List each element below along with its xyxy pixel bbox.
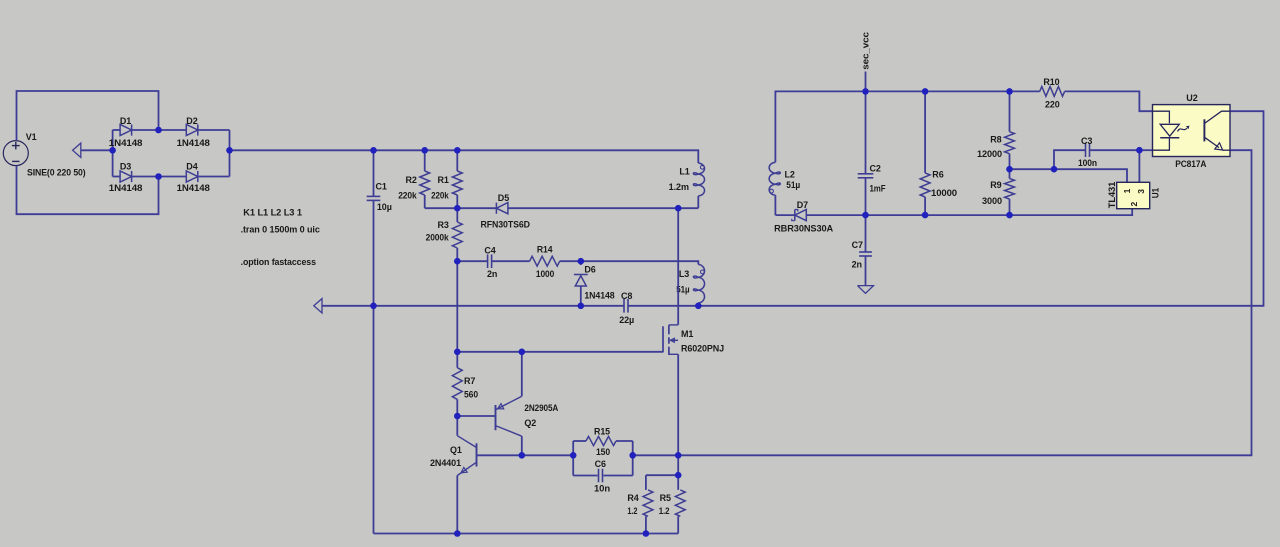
- resistor R9: [1009, 169, 1011, 178]
- svg-text:1000: 1000: [536, 269, 554, 279]
- capacitor C1: [373, 150, 375, 196]
- svg-text:51µ: 51µ: [786, 180, 800, 190]
- svg-text:2: 2: [1129, 202, 1139, 207]
- capacitor C8: [623, 299, 625, 313]
- wire: [457, 351, 663, 353]
- svg-text:1.2: 1.2: [627, 506, 637, 516]
- svg-text:1N4148: 1N4148: [584, 290, 614, 300]
- wire: [1138, 150, 1140, 182]
- wire: [17, 166, 159, 215]
- wire: [322, 305, 624, 307]
- capacitor C2: [865, 91, 867, 173]
- svg-text:RFN30TS6D: RFN30TS6D: [481, 220, 531, 230]
- svg-text:.option fastaccess: .option fastaccess: [241, 257, 316, 267]
- wire: [229, 130, 231, 177]
- U2 coupling arrow: [1178, 128, 1188, 131]
- svg-text:R7: R7: [464, 376, 475, 386]
- svg-text:1: 1: [1122, 188, 1132, 193]
- transistor Q2: [495, 405, 497, 430]
- wire: [1010, 169, 1128, 182]
- wire: [628, 111, 1263, 306]
- wire: [1139, 149, 1152, 151]
- svg-text:2000k: 2000k: [426, 233, 450, 243]
- resistor R6: [924, 91, 926, 172]
- svg-text:220: 220: [1045, 99, 1060, 109]
- svg-text:L1: L1: [679, 167, 689, 177]
- svg-text:D1: D1: [120, 116, 131, 126]
- svg-text:220k: 220k: [431, 190, 449, 200]
- svg-text:12000: 12000: [977, 149, 1002, 159]
- IC U1 TL431: [1117, 182, 1150, 208]
- transistor Q1: [476, 443, 478, 466]
- junctions: [155, 127, 162, 134]
- resistor R1: [456, 150, 458, 171]
- svg-text:1.2: 1.2: [659, 506, 670, 516]
- svg-text:RBR30NS30A: RBR30NS30A: [774, 223, 834, 233]
- wire: [1065, 91, 1153, 111]
- resistor R14: [492, 260, 530, 262]
- svg-text:C1: C1: [376, 182, 387, 192]
- svg-text:560: 560: [464, 389, 478, 399]
- wire: [17, 91, 159, 141]
- ground: [858, 286, 874, 294]
- wire: [230, 150, 699, 163]
- svg-text:L2: L2: [785, 170, 795, 180]
- diode D7: [795, 210, 807, 221]
- U2 phototransistor: [1203, 119, 1205, 141]
- svg-text:C4: C4: [484, 246, 495, 256]
- svg-text:M1: M1: [681, 329, 693, 339]
- svg-text:U1: U1: [1150, 188, 1160, 198]
- wire: [775, 214, 795, 216]
- wire: [373, 306, 375, 534]
- svg-text:1.2m: 1.2m: [669, 182, 689, 192]
- svg-text:150: 150: [596, 447, 610, 457]
- wire: [112, 130, 114, 177]
- svg-text:10µ: 10µ: [377, 202, 392, 212]
- capacitor C6: [573, 475, 597, 477]
- svg-text:L3: L3: [679, 269, 689, 279]
- svg-text:R8: R8: [990, 135, 1001, 145]
- svg-text:D2: D2: [186, 116, 197, 126]
- resistor R2: [424, 150, 426, 171]
- wire: [581, 261, 699, 264]
- inductor L3: [693, 264, 704, 303]
- svg-text:C3: C3: [1081, 136, 1092, 146]
- svg-text:R6020PNJ: R6020PNJ: [681, 344, 724, 354]
- svg-text:U2: U2: [1186, 93, 1197, 103]
- svg-text:100n: 100n: [1078, 158, 1097, 168]
- wire: [865, 72, 867, 92]
- resistor R15: [572, 441, 574, 476]
- diode D3: [113, 176, 121, 178]
- svg-text:C2: C2: [870, 164, 881, 174]
- voltage source V1: [3, 141, 28, 166]
- wire: [508, 207, 698, 209]
- wire: [425, 207, 497, 209]
- svg-text:1mF: 1mF: [870, 184, 887, 194]
- wire: [806, 209, 1132, 215]
- wire: [457, 415, 495, 417]
- svg-text:Q2: Q2: [524, 418, 536, 428]
- svg-text:SINE(0 220 50): SINE(0 220 50): [27, 167, 86, 177]
- svg-text:3000: 3000: [982, 196, 1002, 206]
- svg-text:R10: R10: [1043, 77, 1059, 87]
- svg-text:R2: R2: [406, 175, 417, 185]
- svg-text:sec_vcc: sec_vcc: [861, 32, 871, 70]
- svg-text:3: 3: [1136, 189, 1146, 194]
- resistor R3: [456, 208, 458, 222]
- diode D5: [496, 203, 508, 214]
- svg-text:R3: R3: [438, 220, 449, 230]
- wire: [646, 474, 678, 476]
- svg-text:C6: C6: [595, 459, 606, 469]
- svg-text:22µ: 22µ: [619, 315, 634, 325]
- svg-text:1N4148: 1N4148: [109, 138, 143, 148]
- svg-text:R1: R1: [438, 175, 449, 185]
- svg-text:10n: 10n: [594, 483, 610, 493]
- svg-text:2N2905A: 2N2905A: [524, 403, 558, 413]
- U2 LED: [1153, 111, 1170, 123]
- inductor L1: [693, 163, 704, 196]
- wire: [456, 261, 458, 352]
- capacitor C4: [457, 260, 487, 262]
- svg-text:D6: D6: [584, 265, 595, 275]
- svg-text:R6: R6: [932, 170, 943, 180]
- ground (rotated) at bridge: [81, 149, 113, 151]
- svg-text:V1: V1: [26, 132, 37, 142]
- resistor R4: [645, 475, 647, 490]
- wire: [374, 533, 679, 535]
- diode D1: [113, 129, 121, 131]
- svg-text:.tran 0 1500m 0 uic: .tran 0 1500m 0 uic: [241, 224, 320, 234]
- wire: [677, 455, 679, 475]
- svg-text:1N4148: 1N4148: [177, 183, 210, 193]
- svg-text:220k: 220k: [398, 190, 418, 200]
- svg-text:10000: 10000: [931, 188, 957, 198]
- svg-text:D4: D4: [186, 161, 197, 171]
- ground (rotated) on return rail: [314, 299, 322, 313]
- svg-text:PC817A: PC817A: [1175, 159, 1207, 169]
- inductor L2: [769, 162, 780, 195]
- svg-text:C8: C8: [621, 291, 632, 301]
- diode D2: [159, 129, 187, 131]
- resistor R10: [1040, 87, 1065, 97]
- capacitor C7: [865, 215, 867, 252]
- diode D6: [580, 261, 582, 265]
- resistor R8: [1009, 91, 1011, 131]
- optocoupler U2 PC817A: [1153, 105, 1231, 157]
- svg-text:D5: D5: [498, 193, 509, 203]
- mosfet M1: [677, 208, 679, 325]
- resistor R7: [456, 352, 458, 368]
- svg-text:D7: D7: [797, 200, 808, 210]
- svg-text:1N4148: 1N4148: [177, 138, 210, 148]
- svg-text:R9: R9: [990, 180, 1001, 190]
- wire: [477, 454, 574, 456]
- svg-text:Q1: Q1: [450, 445, 462, 455]
- svg-text:R5: R5: [660, 493, 671, 503]
- svg-text:2n: 2n: [852, 260, 862, 270]
- wire: [633, 150, 1252, 455]
- svg-text:D3: D3: [120, 161, 131, 171]
- svg-text:K1 L1 L2 L3 1: K1 L1 L2 L3 1: [243, 208, 302, 218]
- svg-text:2N4401: 2N4401: [430, 458, 461, 468]
- svg-text:1N4148: 1N4148: [109, 183, 143, 193]
- diode D4: [159, 176, 187, 178]
- svg-text:R15: R15: [594, 426, 610, 436]
- wire: [775, 91, 1039, 162]
- svg-text:2n: 2n: [487, 269, 497, 279]
- svg-text:TL431: TL431: [1107, 182, 1117, 208]
- resistor R5: [677, 475, 679, 490]
- svg-text:R14: R14: [537, 245, 553, 255]
- svg-text:C7: C7: [852, 240, 863, 250]
- svg-text:R4: R4: [627, 493, 638, 503]
- capacitor C3: [1054, 150, 1085, 169]
